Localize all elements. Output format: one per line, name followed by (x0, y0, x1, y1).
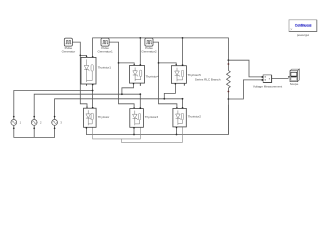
svg-text:Continuous: Continuous (295, 23, 312, 27)
node junction PG1 gate branch (79, 55, 81, 57)
wire top DC+ bus from Thyristor1 anode to Series RLC Branch (93, 38, 229, 60)
wire Pulse Generator output to gates of Thyristor1 and Thyristor (72, 42, 87, 107)
svg-text:Thyristor4: Thyristor4 (146, 74, 160, 78)
svg-text:powergui: powergui (297, 33, 310, 37)
wire drop to Thyristor5 anode (182, 38, 184, 65)
wire Pulse Generator1 output to gates of Thyristor4(mid) and Thyristor3 (109, 42, 134, 107)
thyristor Q5 (Thyristor5, middle row right) (171, 64, 220, 85)
svg-text:Thyristor2: Thyristor2 (188, 114, 202, 118)
pulse generator PG3 (141, 38, 156, 54)
svg-text:Thyristor3: Thyristor3 (145, 115, 159, 119)
node junction phase C at T2 column (182, 98, 184, 100)
wire measurement stubs below bottom thyristors (93, 127, 183, 142)
node junction PG3 gate branch (158, 62, 160, 64)
pulse generator PG2 (98, 38, 113, 54)
svg-text:Thyristor: Thyristor (98, 115, 110, 119)
pulse generator PG1 (62, 38, 75, 54)
wire Voltage Measurement output to Scope (272, 77, 289, 79)
wire phase A bus from AC source 1 to T1 cathode / T4 anode column (14, 84, 93, 119)
AC voltage source 3 (52, 116, 63, 130)
thyristor Q6 (Thyristor3 label, lower middle) (130, 107, 159, 128)
wire cathode bus from bottom thyristors to load (86, 105, 228, 135)
svg-text:Series RLC Branch: Series RLC Branch (195, 77, 221, 81)
AC voltage source 2 (31, 116, 42, 130)
svg-text:Scope: Scope (290, 82, 299, 86)
node junction resistor bottom to VM- (228, 98, 230, 100)
resistor R Series RLC Branch (227, 60, 231, 134)
thyristor Q4 (Thyristor, lower left) (84, 107, 110, 129)
wire phase C bus from AC source 3 to T5 cathode jog and T2 anode (55, 84, 183, 120)
node junction phase B at T6 column (139, 93, 141, 95)
wire drop to Thyristor4(mid) anode (139, 38, 141, 65)
node junction phase A (92, 90, 94, 92)
wire phase B bus from AC source 2 to T3 cathode jog and T6 anode (34, 83, 140, 119)
wire resistor bottom to Voltage Measurement - input (228, 80, 261, 99)
svg-text:Thyristor1: Thyristor1 (98, 65, 112, 69)
node junction resistor top to VM+ (228, 59, 230, 61)
AC voltage source 1 (11, 116, 22, 130)
node junction phase B at jog (121, 93, 123, 95)
wire Pulse Generator2 output to gates of Thyristor5 and Thyristor2 (153, 42, 177, 107)
svg-text:Generator: Generator (62, 50, 75, 54)
wire neutral bus tying AC source bottoms (14, 126, 55, 138)
node junction phase C at jog (163, 98, 165, 100)
wire resistor top to Voltage Measurement + input (228, 60, 261, 77)
thyristor Q3 (Thyristor4 label, middle column) (130, 64, 160, 86)
node junction cathode bus T2 (176, 134, 178, 136)
node junction on top bus at x=182.5 (182, 37, 184, 39)
powergui block (289, 20, 317, 37)
svg-text:Generator2: Generator2 (141, 50, 156, 54)
thyristor Q1 (Thyristor1, upper left) (81, 56, 111, 86)
svg-text:Voltage Measurement: Voltage Measurement (253, 85, 282, 89)
scope U3 (288, 69, 299, 86)
thyristor Q2 (Thyristor2, lower right) (173, 107, 201, 128)
svg-text:Generator1: Generator1 (98, 50, 113, 54)
node junction cathode bus T6 (133, 134, 135, 136)
voltage measurement U2 (253, 75, 282, 89)
node junction on top bus at x=140.3 (139, 37, 141, 39)
node junction PG2 gate branch (118, 62, 120, 64)
